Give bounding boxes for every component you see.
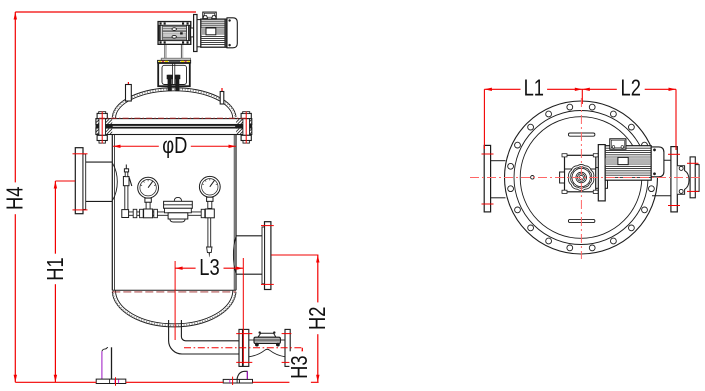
bracket upper plate (161, 58, 190, 60)
L2 right extension (675, 89, 677, 150)
H1 dimension line (54, 181, 56, 382)
L1 L2 arrows (484, 88, 492, 91)
bracket housing inner (162, 65, 187, 84)
bottom weld seam (112, 289, 236, 291)
valve stem lines (249, 339, 254, 341)
reducer piece (677, 166, 689, 194)
svg-text:L2: L2 (621, 76, 641, 102)
top view motor body (605, 146, 651, 181)
inlet flange (75, 148, 83, 214)
left flange bolt (99, 119, 106, 136)
gasket centerline dashed (99, 117, 249, 119)
svg-text:H2: H2 (305, 307, 331, 330)
H2 label (305, 302, 331, 334)
top view shell circle (520, 117, 642, 239)
svg-text:H4: H4 (3, 186, 29, 210)
H1 extension line (55, 180, 75, 182)
right bolt centerline (245, 112, 247, 144)
flange gasket dark bands (96, 125, 112, 128)
left shell wall (111, 135, 113, 291)
drain needle valve (207, 247, 212, 253)
left lifting lug (127, 82, 129, 89)
gearbox corner pad (593, 190, 598, 193)
bracket plate with markers (158, 60, 191, 63)
vessel bottom dished head (112, 292, 236, 327)
small end flange (690, 157, 695, 198)
L3 right extension (242, 258, 244, 364)
inlet nozzle pipe (86, 161, 113, 163)
right shell wall (235, 135, 237, 291)
gearbox rail bolt (160, 22, 162, 24)
small vent hole (531, 176, 535, 180)
top view flange OD (505, 101, 658, 254)
H4 label (3, 182, 29, 214)
valve bolt ticks (236, 333, 252, 335)
differential device (174, 197, 181, 201)
motor end cap (227, 18, 237, 48)
motor mounting plate (194, 15, 197, 52)
L3 dimension line (175, 267, 243, 269)
phiD label (159, 133, 191, 159)
inlet flange bolt ticks (73, 153, 88, 155)
pressure gauge left (138, 177, 159, 198)
H4 top extension line (15, 11, 196, 13)
gauge drain pipe (207, 218, 209, 247)
gearbox corner pad (562, 190, 567, 193)
right gauge valve+tee (207, 197, 213, 201)
top view right nozzle pipe (652, 159, 671, 161)
top view horizontal centerline (470, 177, 702, 179)
outlet flange (265, 222, 271, 290)
top view motor end cap (651, 147, 664, 177)
motor terminal box (203, 12, 216, 19)
valve actuator (258, 333, 276, 337)
outlet saddle curve (233, 237, 235, 273)
gasket lines (112, 125, 236, 127)
gearbox rail bolt (187, 22, 189, 24)
H1 label (43, 254, 69, 285)
svg-text:H3: H3 (287, 355, 313, 378)
gearbox corner pad (593, 154, 598, 157)
left foot plate (96, 379, 126, 383)
sample pipe (124, 177, 126, 209)
valve left flange pair (239, 329, 243, 366)
H2 dimension line (317, 255, 319, 382)
gearbox rail bolt (164, 22, 166, 24)
L2 label (617, 76, 645, 102)
svg-text:H1: H1 (43, 257, 69, 280)
right flange bolt ticks (668, 153, 680, 155)
gearbox body (158, 22, 190, 45)
top view gearbox square (565, 155, 596, 192)
top view flange raised face (514, 111, 648, 245)
pipe coupling (154, 209, 158, 217)
end flange bolt ticks (687, 162, 699, 164)
H2 extension line (271, 254, 318, 256)
pipe coupling (133, 209, 137, 217)
vessel top dished head (112, 88, 236, 117)
top view left nozzle pipe (491, 160, 506, 162)
motor-plate join (197, 19, 201, 21)
gearbox fins and plugs (163, 33, 186, 37)
gearbox side shaft cover (560, 172, 565, 183)
top view terminal box (610, 139, 626, 149)
top view adapter (596, 168, 608, 189)
valve right flange (285, 329, 290, 366)
drive support legs (164, 44, 166, 58)
top view left flange (484, 145, 490, 212)
pipe coupling (140, 209, 144, 217)
motor body front (201, 19, 227, 47)
inlet saddle curve (113, 163, 118, 200)
pressure gauge right (199, 176, 220, 197)
H3 label (287, 351, 313, 383)
ground baseline (15, 381, 96, 383)
L1-L2 dimension line (484, 88, 676, 90)
svg-text:L1: L1 (524, 76, 544, 102)
clamp shaft bars (168, 75, 171, 90)
gearbox output coupling (191, 28, 194, 37)
valve body curve (249, 349, 285, 357)
left leg (102, 347, 108, 351)
outlet flange bolt ticks (261, 225, 274, 227)
svg-text:L3: L3 (199, 255, 219, 281)
right lifting lug (221, 88, 223, 94)
H4 dimension line (14, 12, 16, 382)
top slot upper (568, 133, 595, 136)
right foot plate (223, 379, 252, 383)
left flange bolt ticks (482, 153, 494, 155)
top slot lower (568, 219, 595, 222)
L3 label (196, 255, 224, 281)
H3 dimension line (301, 348, 303, 383)
gearbox square inner line (565, 168, 596, 170)
manifold pipe (129, 211, 206, 213)
pipe coupling (201, 209, 205, 217)
top view vertical centerline (581, 89, 583, 104)
top view right flange (671, 147, 677, 212)
right flange bolt (243, 119, 250, 136)
outlet nozzle pipe (236, 235, 265, 237)
manifold left elbow (122, 210, 129, 218)
gearbox end plates (159, 25, 161, 40)
gearbox rails (158, 22, 190, 26)
top view motor flange (598, 145, 605, 201)
right leg (237, 371, 248, 379)
drain centerline (184, 347, 304, 349)
cover flange plate (96, 119, 252, 125)
left gauge valve+tee (145, 198, 151, 202)
gearbox rosette flange (568, 164, 593, 190)
shaft rod (172, 63, 174, 85)
bracket housing (158, 63, 190, 86)
L1 left extension (483, 89, 485, 149)
L1 label (521, 76, 548, 102)
sample valve (123, 177, 129, 186)
gearbox corner pad (562, 154, 567, 157)
L3 left extension (174, 261, 176, 340)
body flange plate (96, 128, 252, 135)
svg-text:φD: φD (162, 133, 187, 159)
bottom weld dashed line (112, 291, 236, 293)
gearbox rail bolt (182, 22, 184, 24)
drain elbow pipe (169, 320, 239, 354)
top view bolt holes (589, 104, 595, 110)
phiD dimension line (113, 145, 236, 147)
left bolt centerline (101, 112, 103, 144)
